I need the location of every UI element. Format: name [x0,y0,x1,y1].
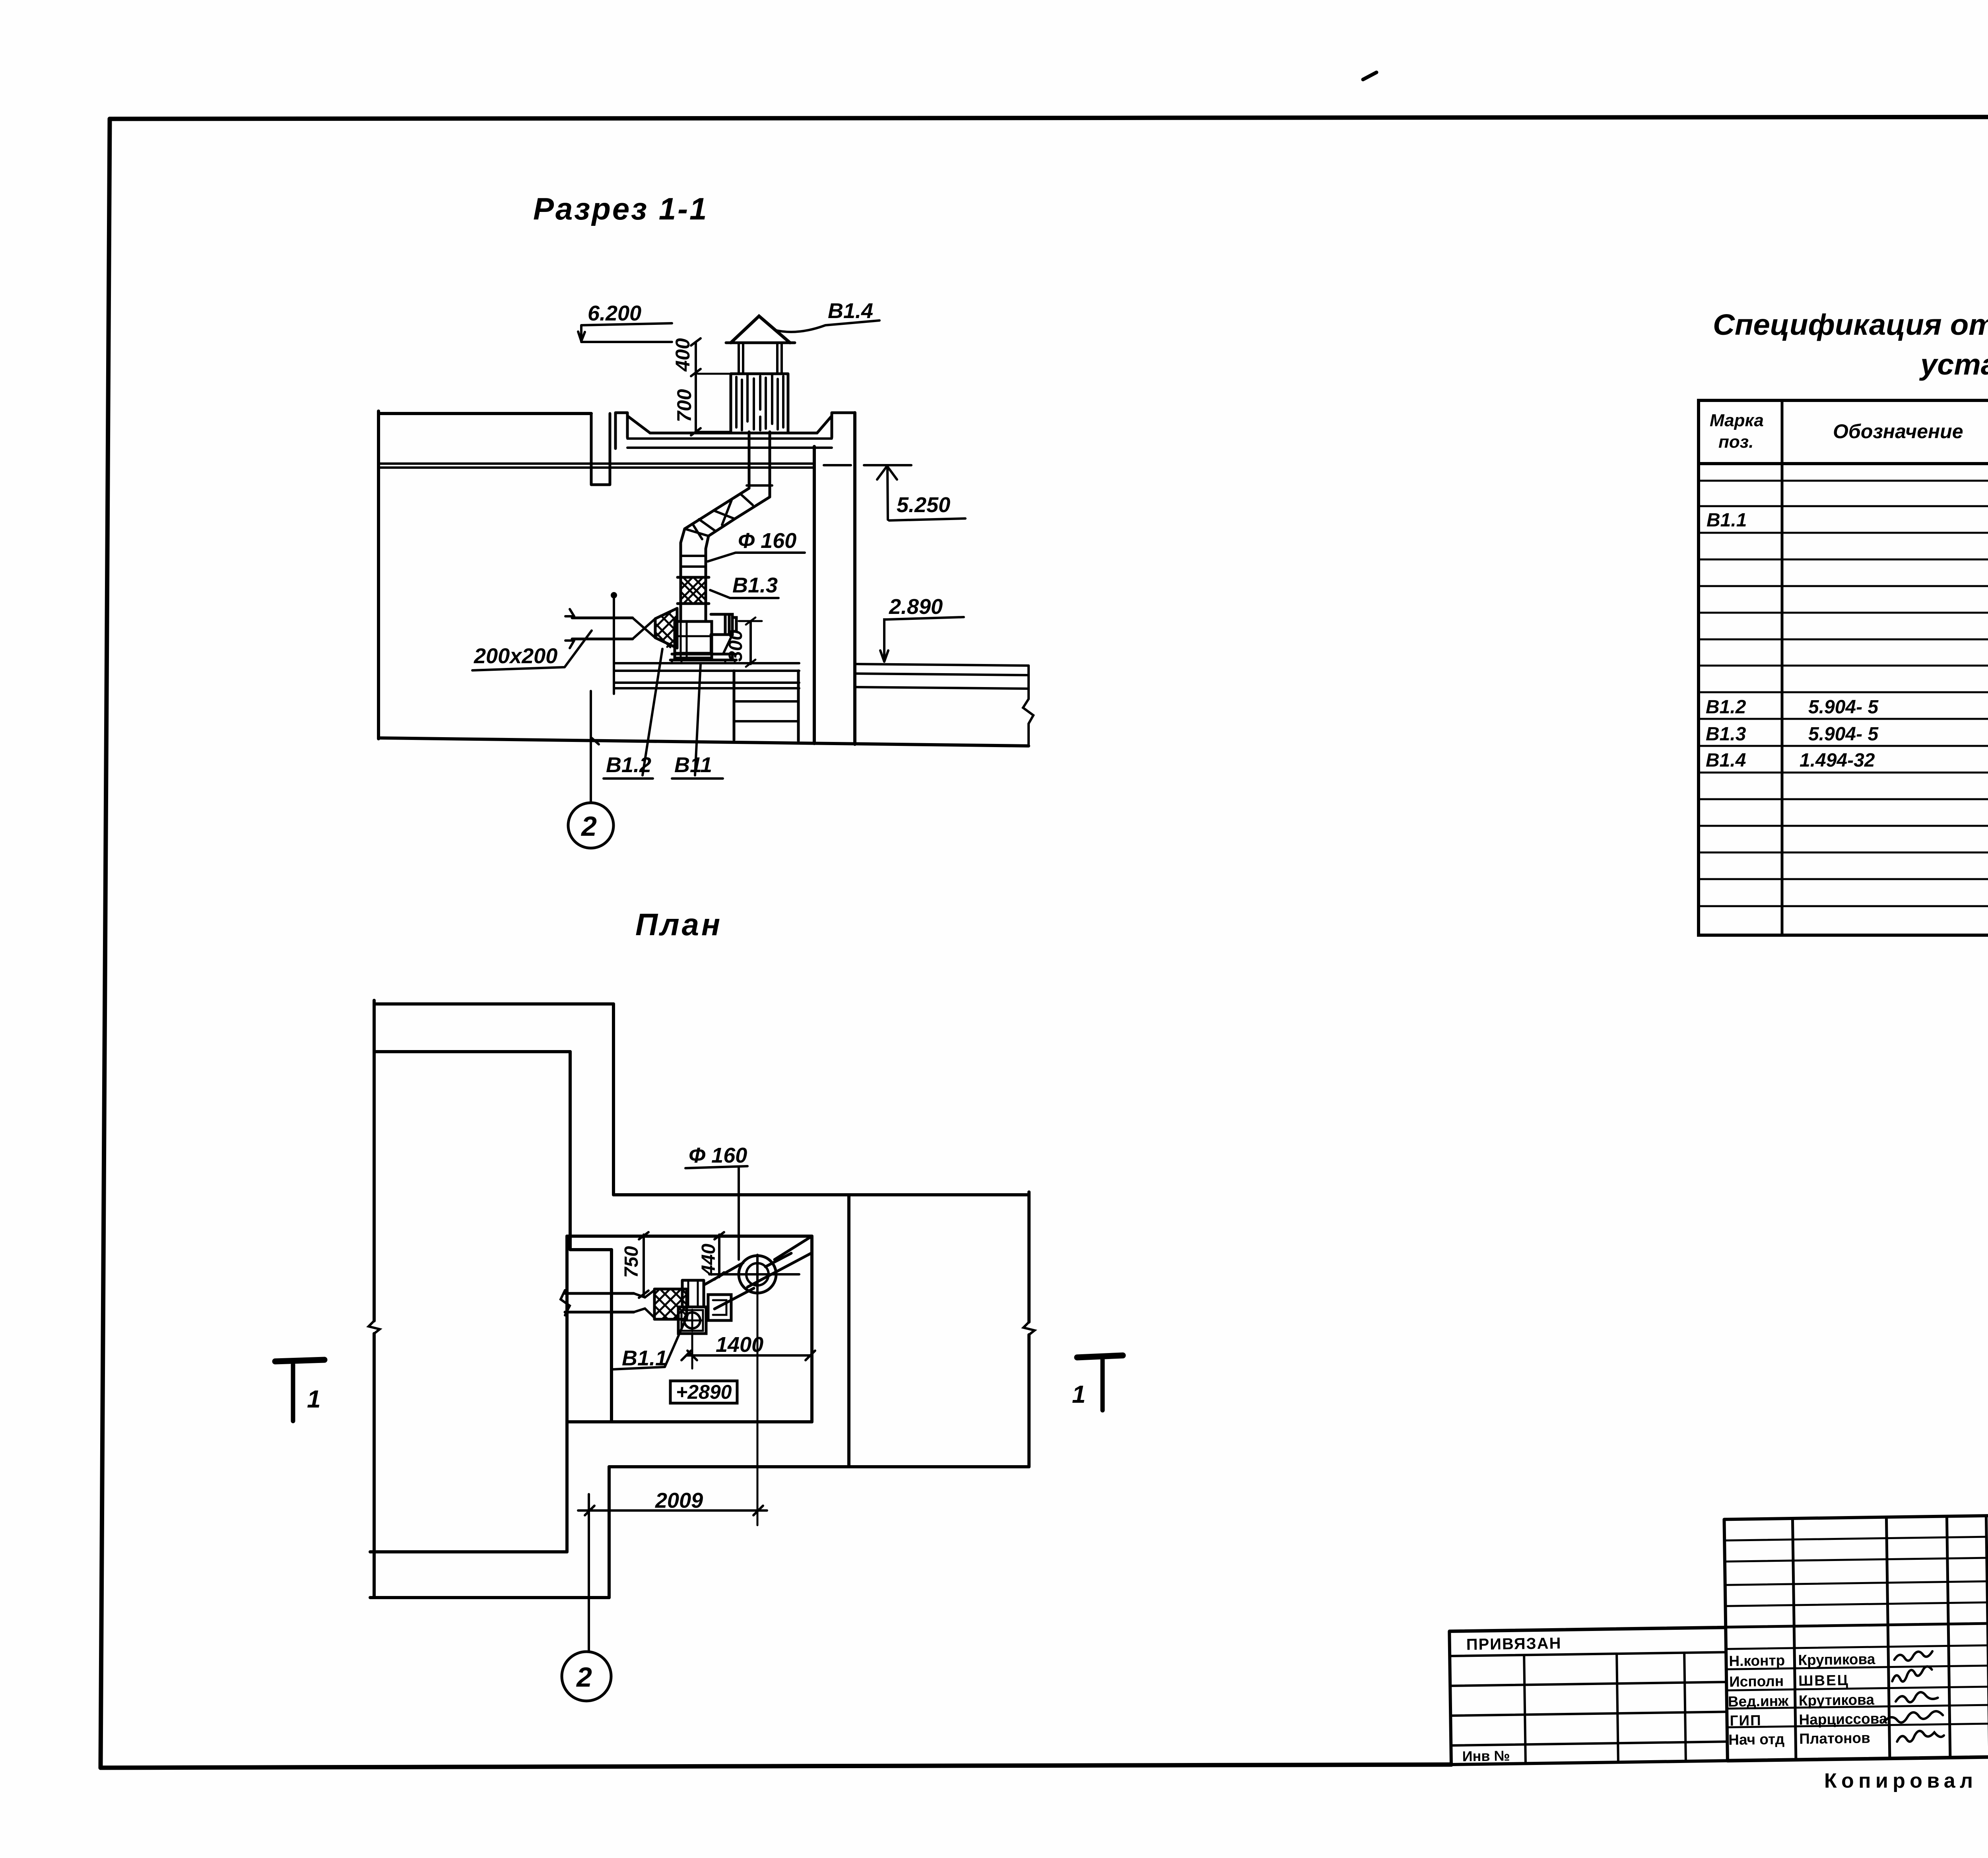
plan wall: upper horizontal outer [613,1193,1029,1196]
svg-text:5.904- 5: 5.904- 5 [1808,697,1879,718]
svg-text:300: 300 [725,630,746,662]
svg-text:2: 2 [580,811,597,842]
plan lower-left block bottom outer [370,1596,609,1599]
plan dim 1400 ticks [681,1351,815,1360]
umbrella cap base line [726,342,795,344]
floor slab lines (fan room) [614,663,799,688]
5.250 arrow stem [887,467,888,520]
fan base feet [672,660,735,663]
plan B1.1 label underline + leader [613,1315,687,1369]
plan cut mark right [1077,1355,1123,1357]
plan dim 440 line + ticks [714,1232,724,1279]
plan cut mark left [275,1360,324,1361]
plan fan axis line [691,1334,693,1369]
title block top edge right part [1986,1509,1988,1516]
plan fan discharge stub [682,1280,704,1307]
duct drop to fan inlet [681,604,706,621]
2.890 arrowhead [880,650,888,662]
plan duct break mark [561,1290,570,1315]
motor bracket [711,635,732,653]
dim line 400/700 vertical [695,342,697,432]
svg-text:Обозначение: Обозначение [1833,420,1963,443]
plan right room left wall [847,1195,850,1467]
middle table column lines [1792,1516,1988,1760]
svg-text:700: 700 [673,389,695,422]
plan flexible insert B1.2 outline [654,1289,687,1319]
svg-text:В1.4: В1.4 [828,299,873,323]
dim extension lines [698,374,729,432]
svg-text:ШВЕЦ: ШВЕЦ [1798,1672,1849,1689]
plan node 2 circle [562,1652,611,1701]
middle table name row lines [1726,1645,1988,1727]
platform edge dot [611,592,617,598]
ceiling double line [379,464,814,468]
svg-text:1400: 1400 [716,1333,763,1357]
plan fan room bottom wall [567,1420,812,1423]
left table row lines [1450,1652,1727,1745]
plan wall: upper room right inner [569,1052,572,1250]
plan fan B1.1 scroll square [678,1307,706,1334]
5.250 arrowhead [877,466,897,480]
label B11 underline + leader [672,664,723,779]
right slab lines (level 2.890) [855,664,1029,689]
svg-text:750: 750 [621,1246,642,1278]
fan B1.1 scroll housing (section) [675,621,712,658]
plan wall: top outer [374,1002,613,1006]
plan riser axis line down [757,1294,759,1525]
svg-text:440: 440 [698,1244,719,1276]
svg-text:Разрез 1-1: Разрез 1-1 [533,191,708,226]
plan riser circle outer [739,1256,776,1293]
flexible insert B1.2 outline (section) [655,608,677,648]
plan riser circle inner [746,1263,769,1285]
wall right inner (section) [813,447,816,744]
plan motor detail [713,1300,726,1315]
node 2 leader line (section) [591,691,599,802]
flexible insert B1.3 crosshatch [681,577,706,604]
svg-text:200х200: 200х200 [474,644,557,668]
hanging beam [591,414,610,485]
plan lower-left block bottom inner [370,1550,567,1553]
svg-text:5.904- 5: 5.904- 5 [1808,724,1879,745]
wall left (section) [377,411,380,739]
svg-text:установок: установок [1919,348,1988,381]
roof tray surface [650,432,817,435]
platform left edge line [613,594,615,694]
svg-text:Крупикова: Крупикова [1798,1651,1875,1668]
plan wall: inner step [570,1248,612,1251]
svg-text:6.200: 6.200 [588,301,641,325]
svg-text:ПРИВЯЗАН: ПРИВЯЗАН [1466,1635,1561,1653]
svg-text:Н.контр: Н.контр [1729,1652,1785,1669]
flexible insert B1.2 crosshatch [655,610,677,647]
TP row bottom line [1987,1575,1988,1581]
spec table header bottom line [1699,462,1988,465]
plan level mark +2890 box [670,1381,737,1403]
svg-text:400: 400 [672,338,694,372]
svg-text:Исполн: Исполн [1729,1673,1784,1690]
inlet duct 200x200 (section) [572,618,633,639]
svg-text:Инв №: Инв № [1462,1747,1510,1765]
plan dim 2009 line + ticks [578,1506,767,1515]
svg-text:В1.1: В1.1 [622,1346,667,1370]
dim 6.200 arrow [578,332,585,341]
plan inner wall line [610,1250,613,1422]
plan right room right wall with break [1027,1192,1031,1467]
svg-text:План: План [635,907,722,942]
svg-text:1.494-32: 1.494-32 [1800,750,1875,771]
plan step outer wall [608,1467,611,1598]
fan B1.1 casing lines [675,621,712,658]
spec table column lines [1782,400,1988,935]
roof tray left upturn [615,413,650,448]
svg-text:Вед.инж: Вед.инж [1728,1693,1789,1710]
plan F160 label underline + leader [685,1166,747,1260]
svg-text:Нарциссова: Нарциссова [1799,1710,1887,1728]
flexible insert B1.3 flanges [678,577,709,604]
plan fan circle cross [681,1310,703,1331]
plan corner diagonals [747,1236,812,1287]
label 2.890 underline + leader [884,617,964,658]
right slab edge with break [1023,666,1033,745]
roof tray slab lines [627,439,832,448]
plan dim 1400 line [686,1354,810,1357]
svg-text:2: 2 [576,1662,592,1693]
5.250 level line [864,464,911,466]
transition cone crossing lines [633,618,655,639]
duct riser through roof [749,432,770,497]
label B1.3 underline + leader [710,590,779,598]
svg-text:Нач отд: Нач отд [1728,1731,1784,1748]
dim ticks [691,338,701,435]
svg-text:В1.2: В1.2 [1706,697,1746,718]
fan base frame [670,654,736,660]
dim 6.200 underline and level line [581,323,672,342]
svg-text:В11: В11 [674,753,712,777]
plan transition cone [634,1290,654,1318]
umbrella cap legs [739,344,782,373]
svg-text:Платонов: Платонов [1799,1730,1870,1747]
duct end ticks [565,609,574,648]
duct elbow flange [747,484,772,487]
plan node 2 leader [588,1494,590,1651]
plan right wall break mark [1023,1322,1035,1335]
plan duct 200x200 [565,1293,634,1312]
svg-text:2009: 2009 [655,1489,703,1512]
plan fan room left wall [565,1236,569,1552]
plan fan room top wall [567,1235,812,1238]
title block bottom right edge [1728,1750,1988,1761]
plan motor square [708,1295,731,1320]
svg-text:2.890: 2.890 [889,595,943,619]
middle table outer [1724,1516,1988,1761]
svg-text:поз.: поз. [1718,432,1753,452]
electric motor (section) [711,614,736,635]
label B1.2 underline + leader [604,649,662,779]
svg-text:ГИП: ГИП [1730,1712,1762,1729]
plan fan room right wall [810,1236,813,1422]
roof tray right upturn [817,413,855,437]
svg-text:В1.1: В1.1 [1706,510,1747,531]
plan riser cross axes [709,1255,799,1294]
svg-text:Марка: Марка [1710,411,1764,430]
spec table outer border [1699,400,1988,935]
label B1.4 underline and leader [825,320,879,325]
svg-text:В1.2: В1.2 [606,753,651,777]
title block left table border [1449,1627,1728,1765]
svg-text:В1.4: В1.4 [1706,750,1746,771]
plan insert crosshatch [654,1289,687,1319]
plan fan inner square [681,1310,703,1331]
svg-text:1: 1 [307,1386,320,1413]
wall right outer (section) [853,413,856,744]
plan dim 750 line + ticks [639,1232,648,1298]
duct elbow S-bend outer boundary [681,488,749,577]
svg-text:Спецификация отопительно-вент: Спецификация отопительно-вентиляционных [1713,308,1988,341]
ladder rails [734,671,798,741]
svg-text:1: 1 [1072,1381,1085,1408]
plan wall left break mark [369,1321,380,1334]
svg-text:Ф 160: Ф 160 [689,1144,747,1167]
dim 300 line and ticks [749,621,752,664]
roof slab top line [379,412,591,415]
stray scan mark top center [1363,72,1376,80]
band line full width [1449,1617,1988,1631]
svg-text:+2890: +2890 [676,1381,732,1403]
svg-text:В1.3: В1.3 [1706,724,1746,745]
node 2 circle (section) [568,803,613,848]
svg-text:5.250: 5.250 [897,493,950,517]
sheet border frame [110,116,1988,119]
duct elbow gore lines [681,494,753,567]
duct elbow S-bend inner boundary [706,497,770,577]
label F160 underline + leader (section) [708,553,805,561]
svg-text:Крутикова: Крутикова [1799,1691,1875,1709]
flexible insert B1.3 body [681,577,706,604]
ladder rungs [734,701,798,721]
plan wall: upper block right outer [612,1004,615,1195]
plan wall: top inner [375,1050,570,1053]
left table column lines [1524,1653,1686,1764]
label 200x200 underline + leader (section) [472,631,592,670]
plan diagonal duct to riser [704,1263,754,1309]
spec table row lines [1699,481,1988,906]
signature squiggles [1894,1651,1932,1661]
dashed level line 5.250 [824,464,851,466]
svg-text:Ф 160: Ф 160 [738,529,796,553]
umbrella cap B1.4 cone [731,316,790,343]
plan fan inlet circle [684,1312,700,1328]
plan bottom wall of right area [609,1465,1029,1468]
stack hatch stripes [736,375,783,430]
svg-text:В1.3: В1.3 [732,573,778,597]
middle table upper row lines [1724,1537,1987,1606]
plan wall: left outer with break [373,1000,376,1598]
roof stack casing [731,374,788,432]
label 5.250 underline [889,518,965,520]
lower floor line (section) [379,738,1029,746]
plan discharge stub inner lines [688,1280,698,1307]
